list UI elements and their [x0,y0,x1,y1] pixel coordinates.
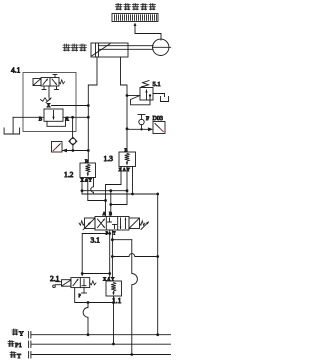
wire right drain down [132,240,138,355]
node gauge tap [126,127,129,130]
manifold box 4.1 [23,73,76,132]
port B wire [13,116,44,118]
transducer left red segment [53,148,56,151]
wire 1.3 X [106,167,122,217]
solenoid valve 4.1 spring [59,80,65,84]
check valve [70,138,76,144]
wire A to check valve [72,117,74,138]
valve 4.1 port stubs [43,86,45,90]
label tension-sensor text (CJK) [116,4,156,10]
bus Y line [32,334,171,336]
valve 2.1 body [71,278,90,288]
bus Y break ticks [28,332,30,339]
solenoid 3.1 left [85,218,96,229]
bus P1 line [32,343,171,345]
wire sensor to pulley [135,31,161,40]
overlay: red tinted segments of transducers [0,0,179,360]
label bus P1 (CJK) [8,341,14,347]
cylinder right port wire [121,57,128,152]
solenoid 4.1 coil [33,79,41,86]
arrow into transducer left [62,149,67,153]
transducer left box [52,142,63,153]
wire 1.1 drain [113,296,115,344]
wire 1.2 Y hop [91,178,94,195]
measuring point [139,119,144,124]
reducing valve spring [41,98,50,102]
wire drain hop to bus Y [83,303,88,335]
wire 3.1 port B feed [110,191,112,217]
wire P line [109,230,111,278]
wire 1.3 A [111,167,127,205]
transducer D03 box [153,122,165,134]
label bus Y (CJK) [12,329,18,335]
relief valve 5.1 spring [142,81,150,87]
wire 1.2 X [81,178,83,195]
proportional arrow left [83,222,91,230]
node relief tap [126,94,129,97]
wire 2.1 to drain bus [75,288,114,303]
wire T line [111,230,113,281]
wire X1 tap [82,190,127,192]
solenoid 3.1 right [129,218,140,229]
wire check valve down [72,145,74,150]
arrow into transducer D03 [148,127,153,131]
wire transducer node [62,150,88,152]
valve 1.1 body [106,281,122,296]
wire drain bus Y [82,193,158,195]
spring 3.1 left [79,221,85,226]
pilot X wire [48,95,50,98]
tank symbol right [161,97,169,102]
valve 3.1 body [95,217,129,231]
valve 1.3 body [119,152,136,167]
wire 2.1 node to P line [82,273,110,275]
spring 3.1 right [140,221,146,226]
transducer D03 red segment [160,128,163,131]
reducing valve drain loop [47,117,66,126]
valve 4.1 top stub [54,75,56,78]
solenoid valve 4.1 body [41,78,59,87]
solenoid 2.1 coil [62,280,71,287]
label left-cylinder (CJK) [63,44,86,51]
solenoid 2.1 plug [56,281,62,283]
spring 2.1 [90,281,96,285]
hydraulic cylinder [91,43,128,57]
wire B to tank [12,117,14,133]
arrow to sensor bar [134,25,136,32]
bus P1 break ticks [28,341,30,348]
proportional arrow right [141,222,149,230]
wire T to right drain [112,239,131,241]
relief outlet to tank [153,94,165,97]
relief valve 5.1 body [140,88,153,101]
wire 1.3 Y [132,167,134,195]
bus T line [32,354,171,356]
sensor bar (hatched) [112,14,158,22]
wire branch to 2.1 [82,234,110,275]
label bus T (CJK) [10,352,16,358]
valve 1.2 body [80,163,96,178]
wire right drain bus [157,193,159,335]
valve 2.1 plug stub [83,288,85,293]
pulley wheel [153,39,169,55]
tank symbol left [4,128,20,134]
relief pilot loop [131,96,151,105]
port A wire [63,116,88,118]
cylinder left port wire [88,57,97,163]
bus T break ticks [28,352,30,359]
reducing valve 4.1 body [44,109,63,121]
wire 1.2 A [88,178,106,201]
wire tee to right bus [112,254,157,257]
